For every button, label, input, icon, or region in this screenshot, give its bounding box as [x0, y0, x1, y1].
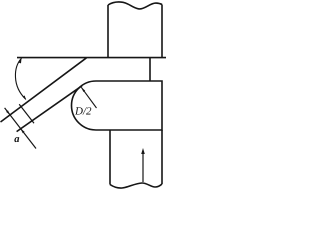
- band upper edge: [1, 58, 87, 122]
- feed arrow head: [141, 148, 145, 154]
- band lower edge: [17, 86, 83, 132]
- band cross line P2: [19, 104, 34, 123]
- band end cross line P1 (dimension line for a): [5, 108, 36, 149]
- upper column break wave: [108, 2, 162, 9]
- svg-text:a: a: [14, 134, 19, 145]
- feed arrow shaft: [142, 153, 144, 183]
- lower column right edge: [161, 130, 163, 184]
- lower column break wave: [110, 183, 162, 188]
- lower column left edge: [109, 130, 111, 185]
- svg-text:D/2: D/2: [74, 105, 92, 117]
- D/2 leader line: [81, 87, 96, 108]
- top plate line: [17, 57, 166, 59]
- angle arc arrow top: [19, 58, 22, 63]
- D/2 leader arrowhead: [81, 87, 85, 92]
- a dimension arrow lower: [21, 129, 25, 134]
- upper column left edge: [107, 5, 109, 58]
- upper column right edge: [161, 5, 163, 58]
- a dimension arrow upper: [6, 110, 10, 115]
- angle arc arrow bottom: [23, 96, 27, 101]
- angle dimension arc: [15, 58, 25, 99]
- die (bullet) outline with round nose: [72, 81, 163, 130]
- vertical connector: [149, 58, 151, 81]
